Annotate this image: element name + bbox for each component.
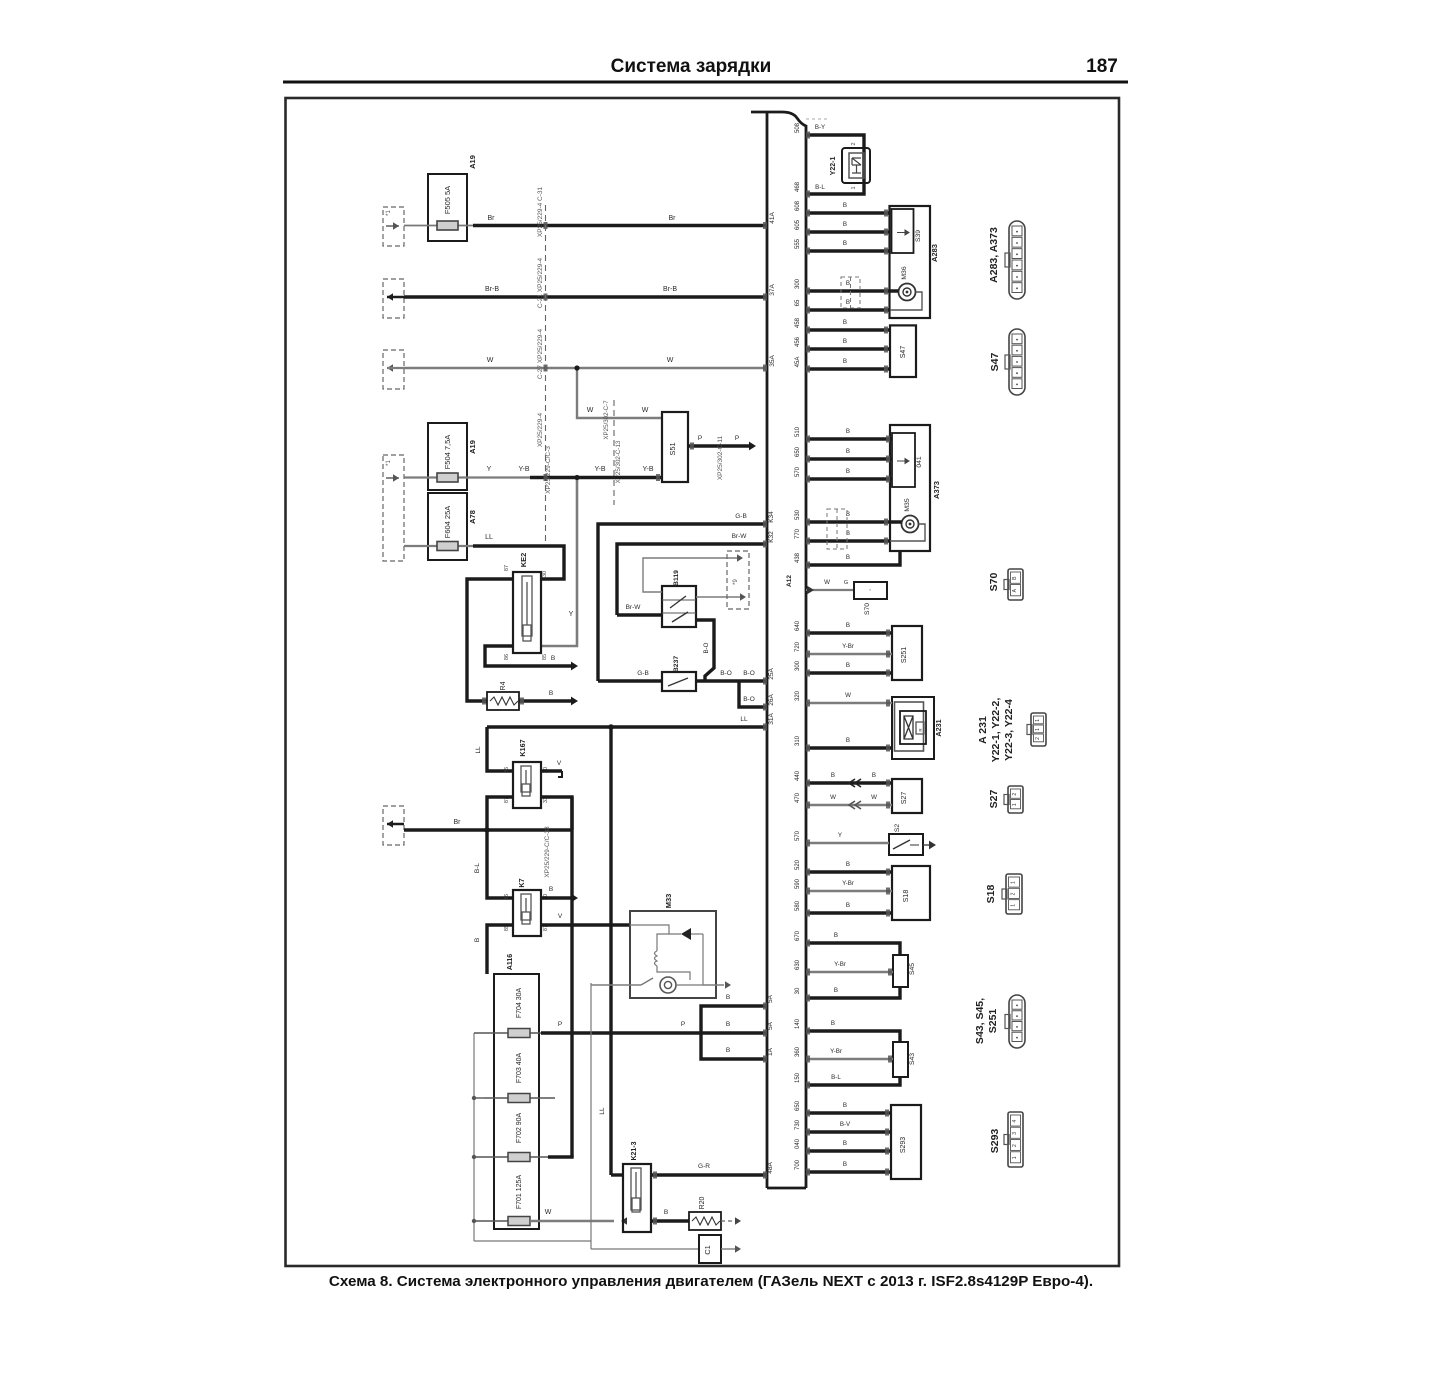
svg-text:Y-B: Y-B [518,466,529,473]
svg-text:2: 2 [1012,793,1018,796]
svg-text:B: B [474,938,481,942]
svg-text:*1: *1 [386,210,392,216]
connector plug X4 [383,279,404,318]
svg-text:S27: S27 [988,790,1000,809]
M36 return loop [890,292,922,310]
svg-text:Br: Br [669,215,677,222]
svg-text:570: 570 [795,830,801,841]
svg-text:S251: S251 [987,1009,999,1034]
header rule [283,81,1128,84]
svg-text:B: B [726,1047,730,1054]
fuse F701 125A [474,1220,508,1222]
svg-text:R20: R20 [699,1196,706,1209]
svg-text:25A: 25A [768,668,775,680]
svg-text:P: P [681,1021,685,1028]
wire trunk to K21-3 pin [611,1173,623,1176]
svg-text:320: 320 [795,690,801,701]
wire K7 pin30 arrow [541,896,571,899]
svg-text:F604 25A: F604 25A [443,506,452,539]
svg-text:M36: M36 [901,266,908,279]
wire Y-Br to S43 mid [806,1058,893,1061]
svg-text:S51: S51 [668,442,677,455]
fuse F704 30A [474,1032,541,1034]
sensor S293 [891,1105,921,1179]
schematic border frame [286,98,1120,1266]
svg-text:Y: Y [487,466,492,473]
svg-text:A373: A373 [932,481,941,499]
wire B119 coil grey loop [643,558,737,592]
wire Y-Br to S45 mid [806,971,893,974]
fuse F604 25A box A78 [428,493,467,560]
svg-text:B: B [846,861,850,868]
svg-text:W: W [642,407,649,414]
svg-text:W: W [667,357,674,364]
svg-text:150: 150 [795,1072,801,1083]
motor M36 [899,284,916,301]
svg-text:C-27 XP25/229-4: C-27 XP25/229-4 [537,329,544,380]
wire bus bottom link [767,1187,806,1190]
svg-text:Y22-3, Y22-4: Y22-3, Y22-4 [1003,699,1015,761]
wire B to A283 low [806,308,890,311]
relay K21-3 [623,1164,651,1232]
svg-text:A19: A19 [468,440,477,454]
svg-text:B: B [843,202,847,209]
svg-text:K21-3: K21-3 [631,1141,638,1160]
wire B to S293 pin2 [806,1149,891,1152]
fuse rail left [473,1033,475,1241]
wire B to S45 top [806,943,900,955]
block A283 [890,206,931,318]
svg-text:S18: S18 [985,885,997,904]
svg-text:3: 3 [1012,1132,1018,1135]
wire B to S293 pin1 [806,1170,891,1173]
harness dashed line XP25/302 [613,400,615,505]
fuse F604 element [404,545,473,547]
svg-text:468: 468 [795,181,801,192]
resistor R4 [487,692,519,710]
svg-text:B-L: B-L [815,184,825,191]
wire B to S18 pin1 [806,870,892,873]
svg-text:Y22-1: Y22-1 [830,157,837,176]
svg-text:S47: S47 [989,353,1001,372]
svg-text:A116: A116 [507,954,514,970]
svg-text:B: B [846,428,850,435]
svg-text:5A: 5A [767,1021,774,1030]
harness dashed line XP25/229 [545,205,547,545]
legend connector S27 [1008,786,1023,813]
svg-text:640: 640 [795,620,801,631]
svg-text:B237: B237 [673,656,680,672]
svg-text:570: 570 [795,466,801,477]
node vertical trunk x611 [609,727,612,1175]
connector plug X2 [383,455,404,561]
svg-text:605: 605 [795,219,801,230]
svg-text:Y-Br: Y-Br [842,643,854,650]
svg-text:W: W [587,407,594,414]
legend connector A231 [1031,713,1046,746]
svg-text:438: 438 [795,552,801,563]
connector plug X1 [383,207,404,246]
switch S2 [889,834,923,855]
wire K7 pin85 down [487,925,513,974]
svg-text:B119: B119 [673,570,680,586]
svg-text:630: 630 [795,959,801,970]
svg-text:XP25/229-4: XP25/229-4 [537,412,544,447]
relay K167 [513,762,541,808]
svg-text:K167: K167 [518,739,527,756]
svg-text:B: B [846,737,850,744]
svg-text:B: B [846,662,850,669]
svg-text:26A: 26A [768,694,775,706]
sensor S18 [892,866,930,920]
connector plug engine side [727,551,749,609]
svg-text:P: P [698,435,702,442]
wire Y-B to S51 [530,476,662,479]
wire B to 041 pin1 [806,437,892,440]
wire G-R from K21-3 to bus pin 48A [651,1173,767,1176]
wire W to A231 [806,702,892,704]
svg-text:B: B [846,622,850,629]
wire B to S39 pin2 [806,230,890,233]
svg-text:86: 86 [504,654,510,660]
wire R4 out to arrow [519,699,571,702]
svg-text:B: B [843,1140,847,1147]
svg-text:5A: 5A [767,994,774,1003]
svg-text:510: 510 [795,426,801,437]
wire B to 041 pin2 [806,457,892,460]
svg-text:B: B [872,772,876,779]
wire A12 W to S70 [806,589,854,591]
svg-text:B: B [843,319,847,326]
connector plug X3 [383,806,404,845]
svg-text:B: B [664,1209,668,1216]
wire G-B loop to bus pin K34 [598,524,767,681]
svg-text:1: 1 [1035,719,1041,722]
fuse F505 5A box A19 [428,174,467,241]
svg-text:LL: LL [475,746,482,753]
legend connector S47 [1009,329,1025,395]
wire P main to pin 5A [541,1031,767,1034]
wire Br-W bottom to B119 [617,613,662,616]
fuse F504 element [404,476,530,478]
svg-text:G: G [844,580,848,586]
node ECU bus right rail [751,112,806,1188]
svg-text:F504 7,5A: F504 7,5A [443,435,452,470]
svg-text:Y-B: Y-B [594,466,605,473]
svg-text:B: B [843,358,847,365]
wire B119 to B-O drop [696,620,714,681]
svg-text:R4: R4 [500,681,507,690]
svg-text:48A: 48A [767,1162,774,1174]
svg-text:S18: S18 [903,890,910,903]
svg-text:B: B [551,655,555,662]
svg-text:580: 580 [795,900,801,911]
svg-text:590: 590 [795,878,801,889]
relay KE2 [513,572,541,653]
svg-text:C1: C1 [703,1245,712,1255]
svg-text:B: B [846,448,850,455]
fuse block A116 [494,974,539,1229]
svg-text:F703 40A: F703 40A [516,1052,523,1083]
fuse F505 5A element [404,225,473,227]
svg-text:S2: S2 [894,824,901,833]
wire S2 out arrow [923,844,929,846]
svg-text:700: 700 [795,1159,801,1170]
ECU top stub [806,118,830,120]
svg-text:S293: S293 [900,1137,907,1153]
svg-text:B: B [843,221,847,228]
wire W to S27 shielded [806,804,892,806]
svg-text:Y: Y [569,611,574,618]
connector dashed box S39 wires [841,277,860,308]
svg-text:41A: 41A [769,212,776,224]
sensor S70 [854,582,887,599]
svg-text:Система зарядки: Система зарядки [611,56,772,77]
wire Br from F505 to bus pin 41A [473,224,767,227]
motor unit M33 [630,911,716,998]
svg-text:35A: 35A [769,355,776,367]
svg-text:Br-B: Br-B [663,286,677,293]
svg-text:Y-Br: Y-Br [842,880,854,887]
wire B trident bottom to pin 1A [701,1033,767,1059]
svg-text:W: W [487,357,494,364]
connector dashed box M35 wires [827,509,847,549]
wire B to M36 [806,289,899,292]
svg-text:770: 770 [795,528,801,539]
svg-text:V: V [558,913,563,920]
svg-text:A19: A19 [468,155,477,169]
svg-text:XP25/302-C-7: XP25/302-C-7 [603,400,610,440]
svg-text:Br-W: Br-W [732,533,748,540]
wire P from S51 to connector arrow [688,444,749,447]
svg-text:Y-Br: Y-Br [830,1048,842,1055]
svg-text:KE2: KE2 [519,553,528,568]
svg-text:2: 2 [1035,737,1041,740]
svg-text:B: B [843,1102,847,1109]
svg-text:S293: S293 [989,1129,1001,1154]
wire Y to S2 [806,842,889,844]
wire Br-W loop to bus pin 92A [617,544,767,615]
wire KE2 pin86 to arrow [485,646,571,666]
svg-text:458: 458 [795,317,801,328]
fuse F702 90A [474,1156,548,1158]
svg-text:B-O: B-O [720,670,732,677]
svg-text:B-O: B-O [743,696,755,703]
svg-text:S70: S70 [988,573,1000,592]
svg-text:670: 670 [795,930,801,941]
svg-text:1: 1 [1035,728,1041,731]
wire B-O branch to bus pin 26A [739,681,767,707]
svg-text:1: 1 [1012,803,1018,806]
svg-text:S43, S45,: S43, S45, [974,998,986,1044]
wire B to S251 pin1 [806,631,892,634]
svg-text:P: P [735,435,739,442]
wire LL drop to K167 pin86 [487,727,513,771]
fuse F504 7.5A box [428,423,467,490]
svg-text:S70: S70 [864,603,871,615]
svg-text:V: V [557,760,562,767]
wire LL main to bus pin 31A [487,725,767,728]
svg-text:187: 187 [1086,56,1118,77]
svg-text:B-O: B-O [743,670,755,677]
wire W from F701 to K21-3 [530,1220,614,1222]
wire B to S293 pin4 [806,1111,891,1114]
svg-text:720: 720 [795,641,801,652]
wire B to A231 [806,746,892,749]
svg-text:Br: Br [454,819,462,826]
node ECU bus left rail [766,112,769,1188]
svg-text:F701 125A: F701 125A [516,1175,523,1210]
svg-text:B: B [846,280,850,287]
svg-text:2: 2 [1012,1144,1018,1147]
motor M35 [902,516,919,533]
svg-text:608: 608 [795,200,801,211]
svg-text:1: 1 [1011,904,1017,907]
svg-text:A78: A78 [468,510,477,524]
A231 inner symbol [900,711,926,744]
wire Y-Br to S251 pin2 [806,653,892,656]
svg-text:530: 530 [795,509,801,520]
legend connector S43 group [1009,995,1025,1048]
svg-text:S47: S47 [900,346,907,359]
relay K7 [513,890,541,936]
svg-text:B: B [549,886,553,893]
svg-text:300: 300 [795,278,801,289]
block S51 [662,412,688,482]
wire Br-B to bus pin 37A [404,295,767,298]
svg-text:XP25/229-4 C-31: XP25/229-4 C-31 [537,187,544,238]
wire KE2 pin87 to R4 [467,579,513,701]
block A231 [892,697,934,759]
svg-text:650: 650 [795,446,801,457]
svg-text:87: 87 [504,565,510,571]
wire C1 out arrow [721,1248,735,1250]
sensor S39 [892,209,914,253]
wire B to S43 top [806,1031,900,1042]
svg-text:B: B [549,690,553,697]
wire K167 pin33 down [541,797,572,830]
svg-text:555: 555 [795,238,801,249]
wire R20 out dashed arrow [721,1220,735,1222]
svg-text:B: B [846,468,850,475]
wire Y grey drop to KE2 [541,478,577,647]
wire B to S39 pin3 [806,249,890,252]
svg-text:Br-W: Br-W [626,604,642,611]
svg-text:2: 2 [851,142,857,145]
wire B to S27 shielded [806,781,892,784]
svg-text:XP25/229-C/C-3: XP25/229-C/C-3 [545,446,552,494]
svg-text:B: B [846,554,850,561]
connector plug X5 [383,350,404,389]
wire B from S45 bottom [806,987,900,998]
svg-text:K34: K34 [768,511,775,523]
svg-text:B-L: B-L [831,1074,841,1081]
svg-text:S251: S251 [901,647,908,663]
svg-text:W: W [545,1209,552,1216]
wire W branch to S51 [577,368,662,418]
legend connector S18 [1006,874,1022,914]
svg-text:LL: LL [485,534,493,541]
svg-text:140: 140 [795,1018,801,1029]
svg-text:W: W [830,794,836,801]
wire B trident top to pin 5A [701,1006,767,1033]
svg-text:LL: LL [740,716,748,723]
svg-text:F505 5A: F505 5A [443,186,452,214]
svg-text:30: 30 [795,987,801,994]
svg-text:B: B [843,1161,847,1168]
sensor S251 [892,626,922,680]
wire F702 to trunk [548,1155,572,1157]
wire B to M35 [806,520,902,523]
svg-text:G-B: G-B [637,670,649,677]
sensor S47 [890,325,916,377]
svg-text:040: 040 [795,1138,801,1149]
svg-text:B-O: B-O [703,642,710,653]
svg-text:S45: S45 [909,963,916,975]
wire B-V to S293 pin3 [806,1130,891,1133]
svg-text:B-V: B-V [840,1121,851,1128]
svg-text:86: 86 [504,767,510,773]
svg-text:A283: A283 [930,244,939,262]
svg-text:1: 1 [1011,881,1017,884]
svg-text:W: W [824,579,830,586]
svg-text:*9: *9 [733,579,739,585]
wire B-L down to K7 [487,830,513,898]
svg-text:37A: 37A [769,284,776,296]
wire K7 pin87 to M33 [541,923,630,926]
sensor S45 [893,955,908,987]
svg-text:A 231: A 231 [977,716,989,744]
svg-text:508: 508 [795,122,801,133]
svg-text:31A: 31A [768,713,775,725]
svg-text:G-B: G-B [735,513,747,520]
svg-text:1: 1 [1012,1156,1018,1159]
svg-text:S43: S43 [909,1053,916,1065]
svg-text:Схема 8. Система электронного: Схема 8. Система электронного управления… [329,1273,1093,1290]
svg-text:470: 470 [795,792,801,803]
sensor S27 [892,779,922,813]
svg-text:S39: S39 [915,230,922,242]
capacitor block C1 [699,1235,721,1263]
wire Y-Br to S18 pin2 [806,890,892,893]
wire B to S18 pin3 [806,911,892,914]
svg-text:30: 30 [542,571,548,577]
svg-text:G-R: G-R [698,1163,710,1170]
svg-text:K32: K32 [768,531,775,543]
wire B-O to bus pin 25A [696,679,767,682]
svg-text:A12: A12 [786,575,793,587]
svg-text:650: 650 [795,1100,801,1111]
svg-text:Y-Br: Y-Br [834,961,846,968]
wire LL from F604 to KE2 pin 30 [473,546,564,579]
svg-text:B-L: B-L [474,863,481,874]
svg-text:M35: M35 [904,498,911,511]
wire K167 pin30 V stub [541,769,562,772]
svg-text:45A: 45A [795,357,801,368]
thin rail bottom [474,1240,591,1242]
svg-text:A283, A373: A283, A373 [988,227,1000,283]
svg-text:B: B [843,240,847,247]
svg-text:LL: LL [599,1107,606,1115]
wire Br to K167 [404,828,572,831]
svg-text:300: 300 [795,660,801,671]
wire G-B bottom to B237 [598,679,662,682]
legend connector S70 [1008,569,1023,600]
svg-text:730: 730 [795,1119,801,1130]
wire B to 041 pin3 [806,477,892,480]
svg-text:F704 30A: F704 30A [516,987,523,1018]
svg-text:XP25/229-C/C-33: XP25/229-C/C-33 [544,826,551,878]
